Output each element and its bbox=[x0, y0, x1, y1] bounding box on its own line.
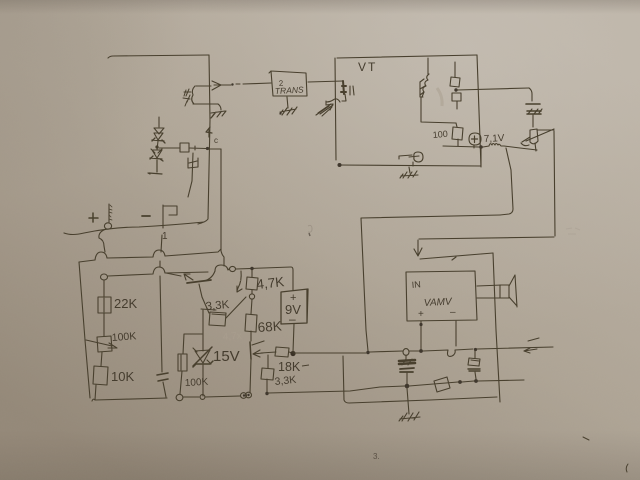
connector circle under 4.7K bbox=[249, 294, 254, 299]
resistor 4.7K bbox=[246, 270, 258, 294]
connector circle plus bbox=[104, 223, 111, 229]
stray mark bottom bbox=[583, 437, 589, 440]
svg-text:3.: 3. bbox=[373, 452, 380, 461]
minus terminal bbox=[142, 215, 150, 217]
arrow into amp bbox=[414, 240, 422, 256]
amp plus lead bbox=[420, 321, 422, 351]
speaker bbox=[500, 275, 517, 307]
wire mid bottom out bbox=[268, 386, 405, 393]
main mid wire A bbox=[294, 352, 366, 354]
capacitor line from switch bbox=[160, 261, 162, 372]
svg-text:3,3x: 3,3x bbox=[221, 273, 241, 285]
wire long wavy power bbox=[64, 222, 204, 235]
pickup symbol near VT bottom bbox=[399, 152, 423, 166]
wire C low bbox=[343, 356, 497, 403]
svg-text:VAMV: VAMV bbox=[424, 296, 454, 309]
dash marks right bbox=[524, 338, 539, 353]
wire squiggle down from VT bbox=[500, 148, 513, 215]
svg-text:15V: 15V bbox=[213, 348, 240, 365]
svg-text:4,7x: 4,7x bbox=[222, 331, 242, 343]
wire from plus down bbox=[99, 229, 106, 252]
resistor 22K bbox=[98, 280, 111, 336]
resistor 100K variable bbox=[86, 336, 117, 366]
wire to TRANS bbox=[224, 83, 271, 85]
node mid top bbox=[250, 267, 253, 270]
svg-text:100K: 100K bbox=[111, 330, 136, 344]
svg-text:IN: IN bbox=[411, 279, 421, 290]
diode D2 bbox=[148, 149, 163, 174]
wire zener top to 3.3K bbox=[201, 309, 216, 310]
lower-left box left edge bbox=[79, 262, 90, 398]
svg-text:7,1V: 7,1V bbox=[484, 133, 505, 145]
resistor on wire B bbox=[434, 377, 450, 392]
resistor 3.3K second bbox=[261, 355, 274, 395]
svg-text:–: – bbox=[450, 307, 456, 318]
capacitor plates bbox=[157, 373, 168, 381]
svg-text:10K: 10K bbox=[111, 369, 134, 384]
svg-text:100K: 100K bbox=[185, 377, 209, 389]
capacitor second bbox=[468, 351, 480, 383]
svg-text:22K: 22K bbox=[114, 296, 137, 311]
ground under TRANS bbox=[279, 97, 297, 115]
bottom-left wire bbox=[92, 398, 167, 401]
VT box bbox=[335, 55, 481, 167]
svg-text:+: + bbox=[418, 309, 424, 320]
svg-text:c: c bbox=[214, 136, 218, 145]
wire main vertical drain bbox=[198, 55, 210, 224]
transistor Q3 output bbox=[250, 341, 276, 393]
wire from switch down bbox=[161, 235, 162, 252]
wire right to left at 237 bbox=[419, 237, 554, 239]
amp minus lead bbox=[455, 321, 457, 346]
wire junction to right vertical bbox=[208, 148, 221, 150]
node C junction bbox=[206, 147, 209, 150]
resistor second in VT bbox=[452, 93, 461, 109]
svg-text:TRANS: TRANS bbox=[275, 84, 305, 96]
node on wire B bbox=[458, 380, 462, 384]
svg-text:1: 1 bbox=[162, 231, 168, 242]
wire meter row bbox=[443, 146, 479, 147]
connector circle on lower wire bbox=[101, 274, 108, 280]
node diode junction bbox=[155, 145, 158, 148]
meter circle bbox=[469, 133, 481, 148]
transformer box TRANS bbox=[269, 71, 307, 96]
wire TRANS right bbox=[308, 81, 343, 82]
resistor 100 bbox=[452, 123, 463, 146]
speaker leads bbox=[477, 285, 502, 298]
lower-left box lower wire with bump bbox=[108, 267, 208, 276]
svg-text:VT: VT bbox=[358, 60, 377, 74]
trimmer below wire bbox=[188, 153, 198, 197]
trimmer pot top right bbox=[521, 129, 554, 151]
wire pot down right edge bbox=[554, 131, 555, 236]
wire speaker col down bbox=[493, 253, 500, 402]
capacitor top right bbox=[526, 104, 542, 127]
svg-text:3,3K: 3,3K bbox=[274, 374, 297, 388]
zener diode 15V bbox=[193, 310, 213, 396]
wire node right bbox=[457, 88, 529, 90]
input jack at VT left bbox=[326, 81, 354, 105]
wire node down to VT bottom bbox=[480, 147, 482, 166]
outer wire left long bbox=[361, 215, 500, 351]
tick marks on vertical bbox=[206, 127, 212, 137]
wire diag to speaker vertical bbox=[420, 253, 493, 260]
ground bottom right bbox=[399, 388, 420, 421]
svg-text:4,7K: 4,7K bbox=[256, 274, 285, 292]
resistor 10K bbox=[93, 366, 108, 400]
transistor inside VT bbox=[420, 58, 429, 97]
plus terminal label area bbox=[89, 213, 98, 222]
wire top right corner down bbox=[529, 88, 532, 101]
arrow line down from top wire bbox=[237, 271, 242, 292]
battery 9V bbox=[281, 267, 308, 352]
resistor R small on diode wire bbox=[159, 143, 206, 152]
electrolytic capacitor bbox=[399, 355, 415, 388]
coil squiggle bbox=[483, 144, 504, 148]
svg-text:18K: 18K bbox=[278, 360, 301, 374]
wire top horizontal bbox=[108, 55, 209, 58]
ground under VT bbox=[400, 167, 418, 178]
resistor 100K second bbox=[178, 334, 202, 394]
node 18K out bbox=[290, 351, 295, 356]
amplifier box VAMV bbox=[406, 271, 477, 321]
svg-text:68K: 68K bbox=[257, 318, 282, 335]
transistor Q1 mosfet bbox=[183, 81, 224, 106]
wire transistor to 100 bbox=[421, 97, 456, 123]
resistor chain top in VT bbox=[450, 62, 460, 87]
svg-text:100: 100 bbox=[432, 129, 448, 140]
bottom wire circles bbox=[176, 394, 183, 400]
svg-text:3,3K: 3,3K bbox=[205, 299, 230, 313]
arrow into input bbox=[316, 104, 333, 116]
resistor 18K bbox=[275, 347, 292, 357]
tiny vertical text ctb bbox=[109, 205, 112, 220]
resistor 3.3K first bbox=[209, 297, 246, 326]
resistor 68K bbox=[245, 299, 257, 341]
wire right vertical long bbox=[221, 149, 224, 266]
transistor Q2 pnp input bbox=[166, 271, 215, 313]
mid top wire with bump bbox=[215, 265, 229, 271]
ground at source bbox=[211, 104, 226, 118]
lower-left box upper wire with bumps bbox=[79, 249, 221, 262]
connector circle mid top bbox=[230, 266, 236, 271]
node in VT bbox=[454, 88, 457, 91]
diode D1 bbox=[152, 117, 165, 143]
svg-text:–: – bbox=[289, 312, 296, 326]
dash after 18K bbox=[302, 365, 309, 366]
switch symbol bbox=[163, 205, 177, 228]
